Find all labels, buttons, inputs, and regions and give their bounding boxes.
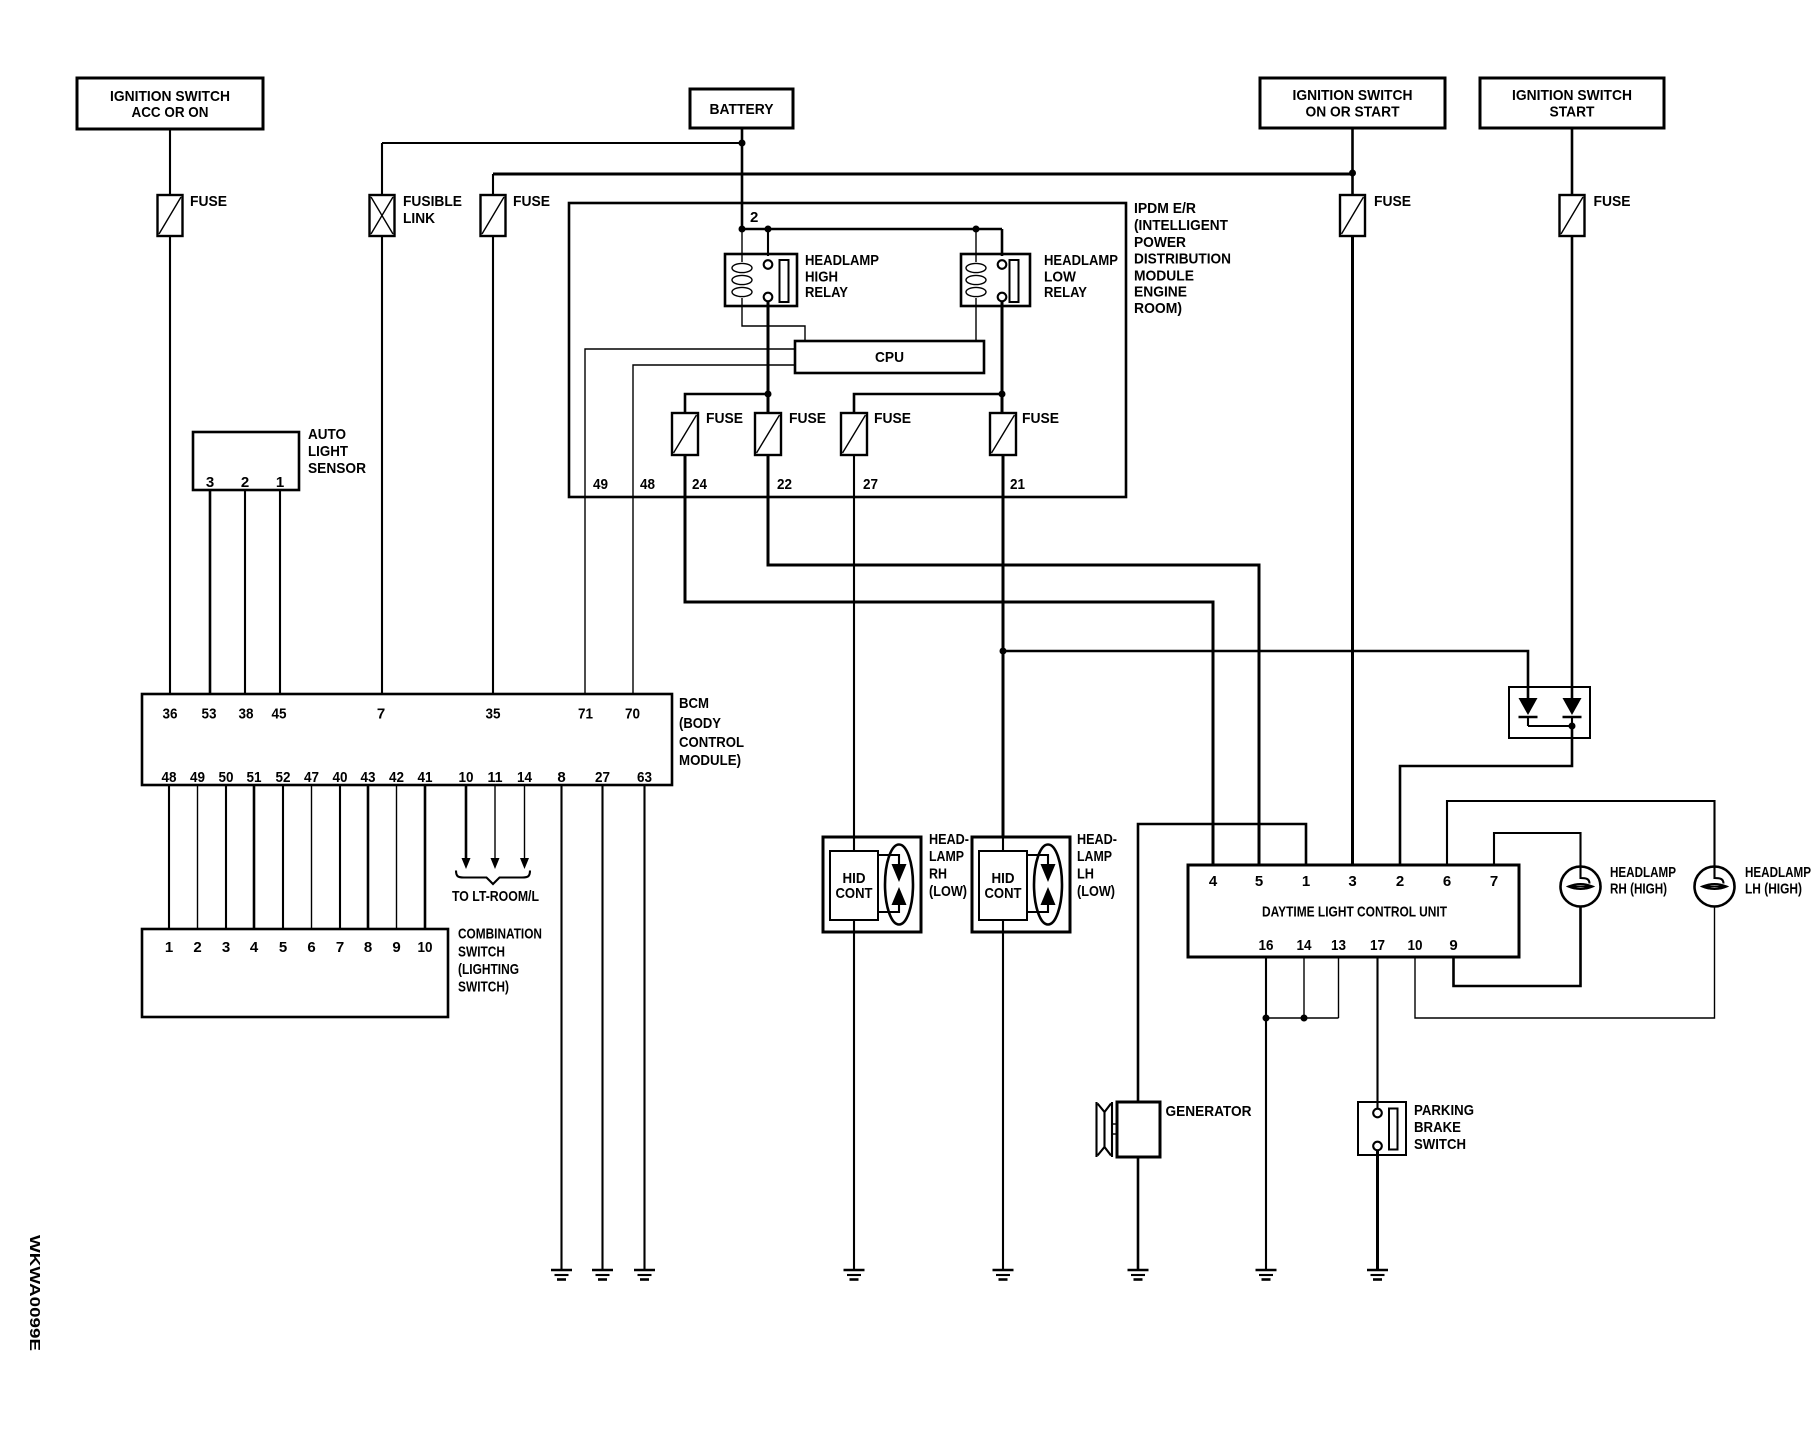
svg-text:42: 42 — [389, 769, 404, 786]
svg-text:CONT: CONT — [985, 885, 1022, 902]
svg-text:MODULE: MODULE — [1134, 268, 1194, 285]
svg-text:FUSE: FUSE — [1594, 193, 1631, 210]
svg-text:36: 36 — [163, 706, 178, 723]
svg-text:49: 49 — [190, 769, 205, 786]
svg-text:48: 48 — [640, 476, 655, 493]
svg-text:FUSE: FUSE — [706, 410, 743, 427]
svg-text:71: 71 — [578, 706, 593, 723]
svg-text:LAMP: LAMP — [929, 848, 964, 865]
wire diode outputs join — [1528, 725, 1572, 727]
svg-text:RELAY: RELAY — [1044, 284, 1087, 301]
svg-text:2: 2 — [1396, 873, 1404, 890]
IPDM E/R box — [569, 203, 1126, 497]
wire ON-OR-START bus — [493, 173, 1353, 176]
wire BCM 49 to switch 2 — [197, 785, 199, 929]
svg-text:HEADLAMP: HEADLAMP — [1044, 252, 1118, 269]
wire fuse to BCM pin 36 — [169, 236, 171, 694]
svg-text:FUSIBLE: FUSIBLE — [403, 193, 462, 210]
svg-text:3: 3 — [222, 939, 230, 956]
svg-text:10: 10 — [418, 939, 433, 956]
generator box — [1097, 1102, 1161, 1157]
svg-text:51: 51 — [247, 769, 262, 786]
wire BCM 10 arrow to LT-ROOM — [462, 785, 471, 869]
wire battery trunk — [741, 128, 744, 229]
svg-text:10: 10 — [459, 769, 474, 786]
label BCM — [679, 695, 744, 769]
node battery junction — [739, 140, 746, 147]
fuse (ON OR START) — [1340, 193, 1411, 236]
wire IPDM top bus — [742, 228, 1002, 231]
wire fuse to BCM pin 35 — [492, 236, 494, 694]
wire daytime pin 14 — [1303, 957, 1305, 1018]
wire low relay contact output — [1001, 301, 1004, 413]
svg-text:FUSE: FUSE — [1022, 410, 1059, 427]
node junction high relay contact — [765, 226, 772, 233]
svg-text:38: 38 — [239, 706, 254, 723]
relay headlamp low — [961, 254, 1030, 306]
svg-text:14: 14 — [517, 769, 533, 786]
svg-text:1: 1 — [165, 939, 173, 956]
svg-text:BCM: BCM — [679, 695, 709, 712]
diode pack box — [1509, 687, 1590, 738]
wire parking brake switch to ground — [1376, 1150, 1379, 1270]
svg-text:13: 13 — [1331, 937, 1346, 954]
wire fuse35 top stub — [492, 174, 494, 195]
ignition switch START box — [1480, 78, 1664, 128]
wire HID RH to ground — [853, 932, 855, 1270]
svg-text:47: 47 — [304, 769, 319, 786]
wire fuse 27 to HID RH — [853, 455, 855, 837]
ground (generator) — [1128, 1270, 1149, 1280]
wire BCM 43 to switch 8 — [367, 785, 370, 929]
wire daytime pin 17 to parking brake switch — [1376, 957, 1378, 1109]
svg-text:SENSOR: SENSOR — [308, 460, 366, 477]
svg-text:14: 14 — [1297, 937, 1313, 954]
svg-text:BRAKE: BRAKE — [1414, 1119, 1461, 1136]
wire BCM 47 to switch 6 — [311, 785, 313, 929]
svg-text:FUSE: FUSE — [513, 193, 550, 210]
wire daytime pin 7 to RH high lamp — [1494, 833, 1581, 867]
ground (BCM 8) — [551, 1270, 572, 1280]
label headlamp high relay — [805, 252, 879, 301]
wire BCM 40 to switch 7 — [339, 785, 341, 929]
HID control LH box — [972, 837, 1070, 932]
fuse 22 — [755, 410, 826, 455]
svg-text:2: 2 — [241, 474, 249, 491]
wire BCM 42 to switch 9 — [396, 785, 398, 929]
svg-text:1: 1 — [276, 474, 284, 491]
svg-text:41: 41 — [418, 769, 433, 786]
svg-text:BATTERY: BATTERY — [710, 101, 774, 118]
ground (daytime 16) — [1256, 1270, 1277, 1280]
wire low relay coil to CPU — [975, 298, 977, 341]
svg-text:3: 3 — [1348, 873, 1356, 890]
svg-text:70: 70 — [625, 706, 640, 723]
svg-text:50: 50 — [219, 769, 234, 786]
wire fusible link to BCM pin 7 — [381, 236, 383, 694]
wire BCM 8 to ground — [560, 785, 562, 1270]
svg-text:ACC OR ON: ACC OR ON — [132, 104, 209, 121]
svg-text:7: 7 — [1490, 873, 1498, 890]
svg-text:21: 21 — [1010, 476, 1025, 493]
ignition switch ON OR START box — [1260, 78, 1445, 128]
node combination switch pins — [165, 939, 433, 956]
svg-text:DAYTIME LIGHT CONTROL UNIT: DAYTIME LIGHT CONTROL UNIT — [1262, 904, 1447, 921]
svg-text:FUSE: FUSE — [190, 193, 227, 210]
svg-text:LIGHT: LIGHT — [308, 443, 348, 460]
label headlamp LH high — [1745, 864, 1811, 898]
node ON OR START junction — [1349, 170, 1356, 177]
wire BCM 63 to ground — [643, 785, 645, 1270]
wire BCM 48 to switch 1 — [168, 785, 170, 929]
wire sensor pin 1 to BCM 45 — [279, 490, 281, 694]
wire diode to daytime pin 2 — [1400, 726, 1572, 865]
svg-text:IGNITION SWITCH: IGNITION SWITCH — [110, 88, 230, 105]
wire CPU to pin 48 — [633, 365, 795, 694]
node junction fuse27 branch — [999, 391, 1006, 398]
node junction diode branch — [1000, 648, 1007, 655]
node junction pin 14 — [1301, 1015, 1308, 1022]
svg-text:HIGH: HIGH — [805, 269, 838, 286]
BCM body control module box — [142, 694, 672, 785]
svg-text:5: 5 — [1255, 873, 1263, 890]
wire BCM 27 to ground — [601, 785, 603, 1270]
wire ACC to fuse — [169, 129, 171, 195]
svg-text:TO LT-ROOM/L: TO LT-ROOM/L — [452, 888, 539, 905]
svg-text:FUSE: FUSE — [789, 410, 826, 427]
svg-text:7: 7 — [377, 706, 385, 723]
label IPDM E/R — [1134, 200, 1231, 317]
svg-text:52: 52 — [276, 769, 291, 786]
fuse (ACC) — [158, 193, 228, 236]
svg-text:53: 53 — [202, 706, 217, 723]
svg-text:DISTRIBUTION: DISTRIBUTION — [1134, 251, 1231, 268]
svg-text:3: 3 — [206, 474, 214, 491]
svg-text:6: 6 — [1443, 873, 1451, 890]
ground (HID LH) — [993, 1270, 1014, 1280]
wire to low relay coil — [975, 229, 977, 262]
lamp headlamp RH high — [1561, 867, 1601, 907]
ground (BCM 63) — [634, 1270, 655, 1280]
wire BCM 41 to switch 10 — [424, 785, 427, 929]
fuse 24 — [672, 410, 743, 455]
node BCM bottom pins — [162, 769, 653, 786]
wire fuse to diode — [1571, 236, 1574, 698]
svg-text:10: 10 — [1408, 937, 1423, 954]
svg-text:HEADLAMP: HEADLAMP — [805, 252, 879, 269]
ground (HID RH) — [844, 1270, 865, 1280]
fuse 27 — [841, 410, 911, 455]
svg-text:HEAD-: HEAD- — [1077, 831, 1117, 848]
wire daytime pin 10 to LH lamp low side — [1415, 907, 1715, 1019]
svg-text:HEADLAMP: HEADLAMP — [1745, 864, 1811, 881]
wire join 16-14-13 — [1266, 1017, 1339, 1019]
svg-text:2: 2 — [750, 209, 758, 226]
svg-text:43: 43 — [361, 769, 376, 786]
svg-text:LH (HIGH): LH (HIGH) — [1745, 881, 1802, 898]
svg-text:9: 9 — [1449, 937, 1457, 954]
bracket TO LT-ROOM/L — [456, 871, 530, 885]
svg-text:5: 5 — [279, 939, 287, 956]
svg-text:AUTO: AUTO — [308, 426, 346, 443]
svg-text:16: 16 — [1259, 937, 1274, 954]
battery box — [690, 89, 793, 128]
auto light sensor box — [193, 432, 299, 491]
svg-text:8: 8 — [364, 939, 372, 956]
svg-text:ROOM): ROOM) — [1134, 300, 1182, 317]
svg-text:ENGINE: ENGINE — [1134, 284, 1187, 301]
fusible link — [370, 193, 463, 236]
svg-text:IGNITION SWITCH: IGNITION SWITCH — [1512, 87, 1632, 104]
svg-text:LINK: LINK — [403, 210, 435, 227]
svg-text:POWER: POWER — [1134, 234, 1186, 251]
svg-text:48: 48 — [162, 769, 177, 786]
svg-text:RH: RH — [929, 866, 947, 883]
label parking brake switch — [1414, 1102, 1474, 1153]
svg-text:6: 6 — [307, 939, 315, 956]
svg-text:FUSE: FUSE — [1374, 193, 1411, 210]
node junction battery/high relay coil — [739, 226, 746, 233]
wire daytime pin 13 — [1338, 957, 1340, 1018]
wire branch to fuse 27 — [854, 394, 1002, 413]
svg-text:LAMP: LAMP — [1077, 848, 1112, 865]
label headlamp low relay — [1044, 252, 1118, 301]
wire generator to ground — [1137, 1157, 1140, 1270]
svg-text:24: 24 — [692, 476, 708, 493]
svg-text:22: 22 — [777, 476, 792, 493]
combination switch box — [142, 929, 448, 1017]
svg-text:35: 35 — [486, 706, 501, 723]
svg-text:49: 49 — [593, 476, 608, 493]
svg-text:7: 7 — [336, 939, 344, 956]
svg-text:(BODY: (BODY — [679, 715, 721, 732]
ground (parking brake) — [1367, 1270, 1388, 1280]
node junction low relay coil — [973, 226, 980, 233]
wire battery junction to fusible link — [382, 142, 742, 144]
svg-text:(LIGHTING: (LIGHTING — [458, 961, 519, 978]
svg-text:ON OR START: ON OR START — [1306, 104, 1400, 121]
fuse (START) — [1560, 193, 1631, 236]
wire fuse 24 to daytime pin 4 — [685, 455, 1213, 865]
wire BCM 51 to switch 4 — [253, 785, 256, 929]
svg-text:PARKING: PARKING — [1414, 1102, 1474, 1119]
svg-text:CONTROL: CONTROL — [679, 734, 744, 751]
wire BCM 52 to switch 5 — [282, 785, 284, 929]
svg-text:GENERATOR: GENERATOR — [1166, 1103, 1252, 1120]
svg-text:27: 27 — [595, 769, 610, 786]
svg-text:63: 63 — [637, 769, 652, 786]
wire sensor pin 3 to BCM 53 — [209, 490, 212, 694]
svg-text:27: 27 — [863, 476, 878, 493]
svg-text:4: 4 — [250, 939, 259, 956]
svg-text:17: 17 — [1370, 937, 1385, 954]
wire fuse 21 to HID LH — [1002, 455, 1005, 837]
label headlamp RH low — [929, 831, 969, 900]
label headlamp RH high — [1610, 864, 1676, 898]
fuse 21 — [990, 410, 1059, 455]
fuse (BCM 35) — [481, 193, 551, 236]
diode right — [1563, 698, 1582, 726]
svg-text:HEADLAMP: HEADLAMP — [1610, 864, 1676, 881]
svg-text:RH (HIGH): RH (HIGH) — [1610, 881, 1667, 898]
svg-text:40: 40 — [333, 769, 348, 786]
svg-text:(INTELLIGENT: (INTELLIGENT — [1134, 217, 1228, 234]
wire fuse to daytime pin 3 — [1351, 236, 1354, 865]
parking brake switch box — [1358, 1102, 1406, 1155]
svg-text:CONT: CONT — [836, 885, 873, 902]
svg-text:COMBINATION: COMBINATION — [458, 926, 542, 943]
svg-text:8: 8 — [557, 769, 565, 786]
wire branch to fuse 24 — [685, 394, 768, 413]
svg-text:IPDM E/R: IPDM E/R — [1134, 200, 1196, 217]
svg-text:2: 2 — [193, 939, 201, 956]
node junction pin 16 — [1263, 1015, 1270, 1022]
CPU box — [795, 341, 984, 373]
wire BCM 11 arrow to LT-ROOM — [491, 785, 500, 869]
node daytime top pins — [1209, 873, 1498, 890]
wire START drop — [1571, 128, 1574, 195]
svg-text:11: 11 — [488, 769, 503, 786]
ignition switch ACC OR ON box — [77, 78, 263, 129]
wire sensor pin 2 to BCM 38 — [244, 490, 246, 694]
wire high relay contact output — [767, 301, 770, 413]
diode left — [1519, 698, 1538, 726]
svg-text:LOW: LOW — [1044, 269, 1077, 286]
svg-text:IGNITION SWITCH: IGNITION SWITCH — [1293, 87, 1413, 104]
wire BCM 50 to switch 3 — [225, 785, 227, 929]
svg-text:SWITCH: SWITCH — [1414, 1136, 1466, 1153]
node BCM top pins — [163, 706, 641, 723]
svg-text:WKWA0099E: WKWA0099E — [26, 1235, 43, 1351]
svg-text:LH: LH — [1077, 866, 1094, 883]
wire high relay coil to CPU — [742, 298, 805, 341]
wire to low relay contact — [1001, 229, 1004, 256]
svg-text:SWITCH): SWITCH) — [458, 979, 509, 996]
label headlamp LH low — [1077, 831, 1117, 900]
svg-text:CPU: CPU — [875, 349, 904, 366]
wire fuse 22 to daytime pin 5 — [768, 455, 1259, 865]
node diode junction — [1569, 723, 1576, 730]
svg-text:(LOW): (LOW) — [1077, 883, 1115, 900]
svg-text:RELAY: RELAY — [805, 284, 848, 301]
wire ON OR START drop — [1351, 128, 1354, 195]
label combination switch — [458, 926, 542, 996]
wire daytime pin 9 to RH lamp low side — [1454, 907, 1581, 987]
svg-text:9: 9 — [392, 939, 400, 956]
wire daytime pin 16 to ground — [1265, 957, 1267, 1270]
wire daytime pin 1 to generator — [1138, 824, 1306, 1102]
wire BCM 14 arrow to LT-ROOM — [520, 785, 529, 869]
svg-text:(LOW): (LOW) — [929, 883, 967, 900]
wire to high relay contact — [767, 229, 769, 256]
ground (BCM 27) — [592, 1270, 613, 1280]
relay headlamp high — [725, 254, 797, 306]
HID control RH box — [823, 837, 921, 932]
wire CPU to pin 49 — [585, 349, 795, 694]
node junction fuse24 branch — [765, 391, 772, 398]
svg-text:45: 45 — [272, 706, 287, 723]
wire fusible link top — [381, 143, 383, 195]
svg-text:START: START — [1550, 104, 1595, 121]
svg-text:MODULE): MODULE) — [679, 752, 741, 769]
wire HID LH to ground — [1002, 932, 1004, 1270]
svg-text:FUSE: FUSE — [874, 410, 911, 427]
svg-text:SWITCH: SWITCH — [458, 944, 505, 961]
node daytime bottom pins — [1259, 937, 1458, 954]
daytime light control unit box — [1188, 865, 1519, 957]
svg-text:1: 1 — [1302, 873, 1310, 890]
label auto light sensor — [308, 426, 366, 477]
wire daytime pin 6 to LH high lamp — [1447, 801, 1715, 867]
wire to high relay coil — [741, 229, 743, 262]
svg-text:4: 4 — [1209, 873, 1218, 890]
svg-text:HEAD-: HEAD- — [929, 831, 969, 848]
lamp headlamp LH high — [1695, 867, 1735, 907]
wire branch to diode — [1003, 651, 1528, 698]
